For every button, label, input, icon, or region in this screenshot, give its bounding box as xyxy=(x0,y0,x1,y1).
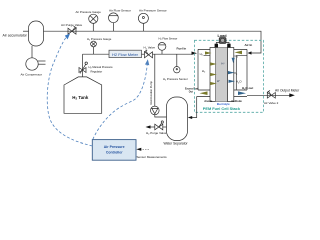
wire: H2 main line left segment xyxy=(83,53,110,55)
terminal cathode xyxy=(227,44,230,48)
fuel in arrow xyxy=(192,52,198,55)
membrane xyxy=(215,48,227,102)
air in arrow into cathode manifold xyxy=(248,51,252,54)
manifold bottom-right channel xyxy=(234,90,247,97)
svg-text:H2 Pressure Gauge: H2 Pressure Gauge xyxy=(87,37,112,42)
svg-text:H2 Flow Meter: H2 Flow Meter xyxy=(112,52,139,57)
excess fuel arrow bottom-left channel xyxy=(200,91,208,95)
H2 label in anode channel xyxy=(202,69,206,74)
wire: accumulator to compressor xyxy=(31,46,33,58)
svg-text:Anode: Anode xyxy=(204,99,213,103)
air purge valve xyxy=(68,28,76,34)
svg-text:Out: Out xyxy=(189,91,193,94)
svg-text:H2 Valve: H2 Valve xyxy=(144,46,156,51)
air compressor xyxy=(26,58,38,70)
H2 tank xyxy=(64,77,102,113)
recirculation pump xyxy=(151,106,160,115)
wire: excess fuel to separator xyxy=(190,97,197,118)
H+ labels in membrane xyxy=(217,61,226,83)
air flow sensor xyxy=(109,13,119,23)
svg-text:Air accumulator: Air accumulator xyxy=(3,33,28,37)
svg-text:Air Flow Sensor: Air Flow Sensor xyxy=(109,8,131,12)
svg-text:Load: Load xyxy=(218,34,228,38)
svg-text:Recirculation Pump: Recirculation Pump xyxy=(149,81,153,105)
cathode plate xyxy=(228,48,234,102)
H2 valve xyxy=(145,52,153,58)
sensor measurements arrow xyxy=(140,148,150,150)
svg-text:Fuel In: Fuel In xyxy=(177,47,187,51)
wire: tank riser to H2 line xyxy=(82,54,84,77)
manifold top-left channel xyxy=(198,49,210,55)
H2 pressure sensor xyxy=(174,67,180,73)
svg-text:Sensor Measurements: Sensor Measurements xyxy=(137,155,168,159)
svg-text:Air In: Air In xyxy=(245,43,253,47)
anode plate xyxy=(210,48,215,102)
air valve 2 xyxy=(267,93,275,99)
air pressure sensor xyxy=(138,13,148,23)
svg-text:Controller: Controller xyxy=(106,151,123,155)
svg-text:Air Pressure Sensor: Air Pressure Sensor xyxy=(139,8,167,12)
label Anode xyxy=(204,99,213,103)
H2 purge valve xyxy=(163,126,167,128)
label Air Output Meter xyxy=(275,88,300,92)
svg-text:H2 Purge Valve: H2 Purge Valve xyxy=(146,131,167,136)
svg-text:H2O out: H2O out xyxy=(242,86,253,91)
fuel arrow in top-left channel xyxy=(200,52,204,57)
PEM fuel cell dashed enclosure xyxy=(195,40,264,112)
O2 arrow from membrane xyxy=(228,71,235,74)
control line: controller to H2 valve (dashed) xyxy=(93,64,148,140)
air pressure controller xyxy=(92,140,136,161)
air accumulator xyxy=(29,21,44,46)
svg-text:Air Pressure Gauge: Air Pressure Gauge xyxy=(76,10,102,14)
svg-text:Cathode: Cathode xyxy=(231,99,242,103)
H2O arrow from membrane xyxy=(229,80,236,83)
manifold right wall xyxy=(246,49,248,90)
label Electrolyte xyxy=(217,103,230,106)
H2 arrows through anode plate xyxy=(210,62,217,65)
load xyxy=(219,38,226,44)
wire: pump to separator xyxy=(155,115,167,117)
svg-text:H2O: H2O xyxy=(236,80,242,85)
svg-text:Air Pressure: Air Pressure xyxy=(104,145,125,149)
water arrow bottom-right channel xyxy=(238,91,246,95)
svg-text:Air Output Meter: Air Output Meter xyxy=(275,88,300,92)
load wires xyxy=(216,43,229,44)
wire: recirculation line xyxy=(154,54,156,106)
label: Air accumulator xyxy=(3,33,28,37)
cathode channel inner wall xyxy=(235,56,237,90)
wire: meter to valve xyxy=(142,53,145,55)
H2 manual pressure regulator xyxy=(79,68,86,73)
label PEM Fuel Cell Stack xyxy=(203,106,241,111)
svg-text:H2 Flow Sensor: H2 Flow Sensor xyxy=(159,36,178,41)
H2 pressure gauge xyxy=(91,41,97,47)
wire: main air line xyxy=(44,31,262,53)
svg-text:Excess Fuel: Excess Fuel xyxy=(185,89,199,91)
manifold left wall xyxy=(197,49,199,90)
svg-text:H2 Pressure Sensor: H2 Pressure Sensor xyxy=(163,77,188,82)
manifold top-right channel xyxy=(234,49,247,55)
wire: H2 line to fuel cell xyxy=(153,53,194,55)
svg-text:Air Purge Valve: Air Purge Valve xyxy=(61,23,83,27)
terminal anode xyxy=(215,44,218,48)
leader wire to accumulator xyxy=(23,30,29,32)
label: excess fuel out xyxy=(185,89,199,94)
wire: water/air outlet xyxy=(247,94,290,96)
svg-text:PEM Fuel Cell Stack: PEM Fuel Cell Stack xyxy=(203,106,241,111)
svg-text:Air Compressor: Air Compressor xyxy=(21,73,43,77)
O2 down arrow in cathode gap xyxy=(232,58,235,63)
label O2 top-right channel xyxy=(235,54,239,59)
label Cathode xyxy=(231,99,242,103)
svg-text:Water Separator: Water Separator xyxy=(164,142,189,146)
svg-text:Air Valve 2: Air Valve 2 xyxy=(264,101,279,105)
air pressure gauge xyxy=(89,14,98,23)
control line: controller to air purge valve (dashed) xyxy=(47,38,92,147)
H2 flow meter xyxy=(109,50,142,57)
svg-text:H2 Manual Pressure: H2 Manual Pressure xyxy=(89,65,114,70)
svg-text:Regulator: Regulator xyxy=(91,70,103,74)
water separator xyxy=(167,97,188,141)
label H2O out xyxy=(242,86,253,91)
manifold bottom-left channel xyxy=(197,90,210,97)
H2 flow sensor xyxy=(158,43,166,51)
label Air In xyxy=(245,43,253,47)
air arrow in top-right channel xyxy=(235,51,243,55)
